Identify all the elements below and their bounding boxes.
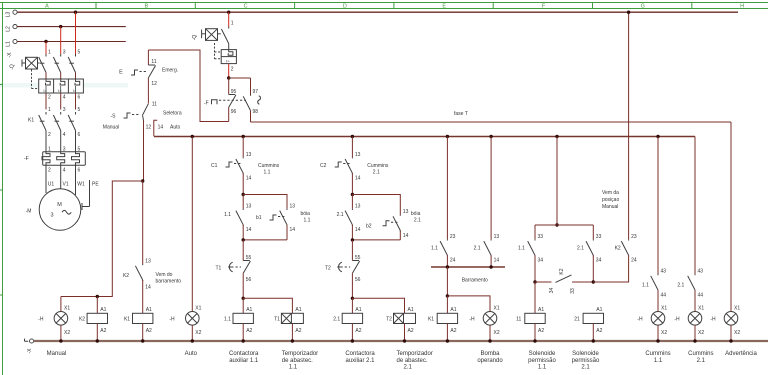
contact 2.1 33-34 — [577, 225, 602, 282]
coil solenoide 1.1 — [516, 282, 545, 341]
svg-text:bóia: bóia — [301, 211, 311, 217]
svg-text:T2: T2 — [325, 265, 331, 271]
svg-text:-F: -F — [204, 100, 209, 106]
label Temporizador de abastec 1.1 — [282, 351, 318, 371]
svg-text:Contactora: Contactora — [229, 351, 259, 357]
svg-text:2.1: 2.1 — [337, 212, 344, 218]
svg-text:21: 21 — [574, 316, 580, 322]
svg-text:14: 14 — [355, 176, 361, 182]
svg-text:43: 43 — [661, 269, 667, 275]
svg-text:-H: -H — [710, 316, 716, 322]
junction rejoin 1.1 — [242, 238, 245, 241]
contact 2.1 13-14 bomba — [474, 137, 500, 268]
label Cummins 1.1 bottom — [645, 351, 670, 364]
lamp -H Manual — [38, 297, 70, 342]
svg-text:Cummins: Cummins — [367, 163, 389, 169]
lamp -H cummins 1.1 — [637, 305, 667, 341]
wire fase T rail — [251, 121, 732, 123]
svg-text:33: 33 — [538, 234, 544, 240]
svg-text:A2: A2 — [295, 328, 301, 334]
svg-text:Emerg.: Emerg. — [162, 67, 178, 73]
svg-text:24: 24 — [450, 258, 456, 264]
coil 1.1 — [224, 298, 253, 341]
contact 1.1 43-44 — [642, 137, 666, 312]
breaker -Q control operator box — [192, 29, 221, 41]
svg-text:56: 56 — [355, 277, 361, 283]
wire top rail to K2 contact — [628, 12, 630, 239]
svg-text:X2: X2 — [698, 330, 704, 336]
contact T1 55-56 — [216, 240, 252, 298]
wire to bomba lamp — [447, 296, 490, 312]
svg-text:L3: L3 — [6, 12, 12, 18]
svg-text:23: 23 — [631, 234, 637, 240]
svg-text:Vem da: Vem da — [602, 190, 619, 196]
node Barramento bus — [431, 266, 505, 268]
svg-text:posiçao: posiçao — [602, 197, 619, 203]
svg-text:K2: K2 — [79, 316, 85, 322]
svg-text:1.1: 1.1 — [642, 283, 649, 289]
svg-text:Manual: Manual — [103, 124, 119, 130]
svg-text:13: 13 — [246, 152, 252, 158]
svg-text:2.1: 2.1 — [474, 246, 481, 252]
svg-text:A2: A2 — [246, 328, 252, 334]
svg-text:A2: A2 — [146, 328, 152, 334]
svg-text:bóia: bóia — [411, 211, 421, 217]
svg-text:b1: b1 — [256, 215, 262, 221]
svg-text:D: D — [343, 3, 347, 9]
svg-text:2.1: 2.1 — [373, 170, 380, 176]
svg-text:3: 3 — [63, 107, 66, 113]
svg-text:A2: A2 — [355, 328, 361, 334]
contact b2 bóia — [366, 209, 409, 240]
contact K2 23-24 — [593, 234, 637, 282]
svg-text:14: 14 — [403, 233, 409, 239]
overload contact -F 97-98 — [229, 78, 261, 122]
label Solenoide permissão 2.1 — [572, 351, 600, 371]
svg-text:-M: -M — [26, 209, 32, 215]
svg-text:1: 1 — [48, 50, 51, 56]
svg-text:2.1: 2.1 — [697, 358, 706, 364]
wire bottom rail — [34, 340, 768, 342]
svg-text:G: G — [641, 3, 645, 9]
svg-text:A1: A1 — [450, 307, 456, 313]
svg-text:13: 13 — [494, 234, 500, 240]
terminal -X bottom — [25, 339, 34, 354]
coil 2.1 — [333, 298, 362, 341]
svg-text:14: 14 — [494, 258, 500, 264]
wire to self-hold split 2.1 — [351, 173, 353, 194]
label Contactora auxiliar 1.1 — [229, 351, 259, 364]
junction bomba contact 1.1 — [446, 135, 449, 138]
svg-text:T1: T1 — [274, 316, 280, 322]
junction K2 coil tap — [96, 295, 99, 298]
svg-text:Solenoide: Solenoide — [529, 351, 556, 357]
wire manual branch to lamp column — [61, 181, 143, 297]
svg-text:X1: X1 — [195, 305, 201, 311]
wire barramento down — [446, 267, 448, 296]
svg-text:Temporizador: Temporizador — [397, 351, 433, 357]
svg-text:14: 14 — [290, 227, 296, 233]
junction solenoid split — [555, 223, 558, 226]
svg-text:A1: A1 — [246, 307, 252, 313]
svg-text:1.1: 1.1 — [264, 170, 271, 176]
overload relay -F — [24, 152, 85, 166]
svg-text:H: H — [740, 3, 744, 9]
contact 1.1 13-14 — [224, 195, 251, 240]
junction bomba lamp split — [446, 294, 449, 297]
svg-text:-S: -S — [111, 113, 117, 119]
svg-text:Cummins: Cummins — [645, 351, 670, 357]
junction top rail K2 — [627, 11, 630, 14]
svg-text:33: 33 — [596, 234, 602, 240]
svg-text:L1: L1 — [6, 41, 12, 47]
svg-text:b2: b2 — [366, 224, 372, 230]
junction split 1.1 — [242, 193, 245, 196]
svg-text:X2: X2 — [195, 330, 201, 336]
svg-text:Vem do: Vem do — [156, 272, 173, 278]
wire solenoid split — [535, 224, 593, 226]
svg-text:98: 98 — [253, 109, 259, 115]
svg-text:auxiliar 2.1: auxiliar 2.1 — [345, 358, 375, 364]
svg-text:2: 2 — [48, 168, 51, 174]
junction L3 — [74, 11, 77, 14]
wire to self-hold split 1.1 — [242, 173, 244, 194]
node L2 rail — [6, 25, 126, 32]
wire selector manual branch — [143, 121, 145, 182]
svg-text:2: 2 — [48, 132, 51, 138]
svg-text:97: 97 — [253, 89, 259, 95]
svg-text:U1: U1 — [48, 182, 55, 188]
junction -Q control on L3 — [227, 11, 230, 14]
svg-text:X2: X2 — [734, 330, 740, 336]
junction barramento left — [446, 265, 449, 268]
svg-text:auxiliar 1.1: auxiliar 1.1 — [229, 358, 259, 364]
breaker -Q trip block — [39, 79, 84, 93]
contact C2 13-14 — [320, 137, 361, 182]
selector switch -S — [103, 101, 182, 136]
svg-text:2.1: 2.1 — [414, 218, 421, 224]
svg-text:A1: A1 — [295, 307, 301, 313]
lamp -H advertencia — [710, 305, 740, 341]
label Vem da posição Manual — [602, 190, 619, 210]
svg-text:2.1: 2.1 — [404, 365, 413, 371]
wire PE — [82, 180, 90, 210]
node L1 rail — [6, 39, 126, 46]
junction manual branch — [141, 179, 144, 182]
timer T2 — [386, 307, 415, 341]
svg-text:Auto: Auto — [185, 351, 198, 357]
pin labels overload bottom 2 4 6 — [48, 168, 81, 174]
junction coil split 2.1 — [351, 297, 354, 300]
svg-text:X1: X1 — [64, 305, 70, 311]
svg-text:-H: -H — [674, 316, 680, 322]
svg-text:Bomba: Bomba — [480, 351, 500, 357]
svg-text:K2: K2 — [559, 268, 565, 274]
svg-text:3: 3 — [50, 213, 53, 219]
svg-text:E: E — [442, 3, 446, 9]
svg-text:14: 14 — [145, 285, 151, 291]
svg-text:5: 5 — [78, 107, 81, 113]
wire -Q control to -F — [228, 64, 230, 78]
svg-text:X2: X2 — [494, 330, 500, 336]
junction barramento right — [489, 265, 492, 268]
svg-text:A1: A1 — [596, 307, 602, 313]
svg-text:PE: PE — [92, 182, 99, 188]
svg-text:6: 6 — [78, 132, 81, 138]
contact K2 13-14 — [123, 181, 151, 313]
wire fase T to advertencia — [730, 122, 732, 312]
svg-text:A1: A1 — [146, 307, 152, 313]
svg-text:1.1: 1.1 — [224, 316, 231, 322]
svg-text:2.1: 2.1 — [333, 316, 340, 322]
svg-text:12: 12 — [146, 125, 152, 131]
wire breaker to K1 — [46, 93, 76, 110]
svg-text:Solenoide: Solenoide — [572, 351, 599, 357]
svg-text:A1: A1 — [100, 307, 106, 313]
pin labels overload top 1 3 5 — [48, 146, 81, 152]
contactor K1 power poles — [28, 112, 76, 131]
svg-text:-H: -H — [637, 316, 643, 322]
svg-text:T1: T1 — [216, 265, 222, 271]
junction L1 — [44, 40, 47, 43]
svg-text:11: 11 — [516, 316, 521, 322]
svg-text:-F: -F — [24, 156, 29, 162]
svg-text:6: 6 — [78, 95, 81, 101]
svg-text:-H: -H — [38, 316, 44, 322]
svg-text:-H: -H — [469, 316, 475, 322]
svg-text:X1: X1 — [494, 305, 500, 311]
junctions bottom rail — [59, 339, 733, 342]
coil K1 manual — [124, 307, 153, 341]
lamp -H cummins 2.1 — [674, 305, 704, 341]
svg-text:V1: V1 — [63, 182, 69, 188]
svg-text:4: 4 — [63, 95, 66, 101]
breaker -Q control pole — [221, 27, 228, 50]
contact 2.1 13-14 — [337, 195, 361, 240]
svg-text:14: 14 — [246, 176, 252, 182]
label bóia 1.1 — [301, 211, 311, 224]
wire phase drop 1 — [45, 42, 47, 55]
svg-text:A2: A2 — [596, 328, 602, 334]
svg-text:Barramento: Barramento — [462, 278, 488, 284]
svg-text:-H: -H — [169, 316, 175, 322]
svg-text:de abastec.: de abastec. — [282, 358, 313, 364]
svg-text:Manual: Manual — [47, 351, 67, 357]
lamp -H bomba — [469, 305, 499, 341]
svg-text:23: 23 — [450, 234, 456, 240]
svg-text:W1: W1 — [77, 182, 85, 188]
svg-text:L2: L2 — [6, 26, 12, 32]
svg-text:A2: A2 — [100, 328, 106, 334]
wire -F96 to E11 — [148, 50, 228, 122]
svg-text:A1: A1 — [538, 307, 544, 313]
contact 1.1 33-34 — [518, 225, 543, 282]
svg-text:12: 12 — [151, 81, 157, 87]
svg-text:Seletora: Seletora — [163, 110, 182, 116]
svg-text:1: 1 — [48, 107, 51, 113]
svg-text:C2: C2 — [320, 163, 327, 169]
svg-text:1.1: 1.1 — [224, 212, 231, 218]
junction L2 — [59, 25, 62, 28]
svg-text:-Q: -Q — [192, 35, 198, 41]
svg-text:Cummins: Cummins — [258, 163, 280, 169]
wire auto rail — [154, 136, 695, 138]
wire phase drop 5 — [75, 12, 77, 54]
svg-text:14: 14 — [158, 125, 164, 131]
label Vem do barramento — [156, 272, 182, 285]
svg-text:2.1: 2.1 — [577, 246, 584, 252]
svg-text:K2: K2 — [615, 246, 621, 252]
contact 1.1 23-24 — [431, 137, 456, 268]
junction coil split 1.1 — [242, 297, 245, 300]
label Cummins 2.1 bottom — [688, 351, 713, 364]
svg-text:56: 56 — [246, 277, 252, 283]
coil K1 bomba — [428, 296, 458, 341]
svg-text:3: 3 — [63, 50, 66, 56]
svg-text:X1: X1 — [698, 305, 704, 311]
svg-text:Cummins: Cummins — [688, 351, 713, 357]
wire L3 to -Q control — [228, 12, 230, 26]
svg-text:-X: -X — [27, 348, 33, 354]
svg-text:1.1: 1.1 — [654, 358, 663, 364]
svg-text:permissão: permissão — [528, 358, 556, 364]
svg-text:-Q: -Q — [10, 64, 16, 70]
svg-text:K1: K1 — [124, 316, 130, 322]
junction solenoid feed — [555, 135, 558, 138]
svg-text:A: A — [45, 3, 49, 9]
junction C2 rung — [351, 135, 354, 138]
wire K1 to overload — [46, 131, 76, 152]
svg-text:14: 14 — [246, 227, 252, 233]
svg-text:K1: K1 — [428, 316, 434, 322]
svg-text:34: 34 — [538, 258, 544, 264]
label Contactora auxiliar 2.1 — [345, 351, 375, 364]
svg-text:2.1: 2.1 — [677, 283, 684, 289]
label Bomba operando — [477, 351, 503, 364]
svg-text:43: 43 — [698, 269, 704, 275]
wire split branch bóia 1.1 — [243, 195, 287, 209]
svg-text:A1: A1 — [408, 307, 414, 313]
svg-text:2: 2 — [48, 95, 51, 101]
svg-text:11: 11 — [152, 101, 157, 107]
svg-text:Advertência: Advertência — [725, 351, 757, 357]
junction -F 95 97 — [227, 76, 230, 79]
svg-text:A2: A2 — [538, 328, 544, 334]
motor -M — [26, 189, 81, 231]
label Cummins 2.1 — [367, 163, 389, 176]
svg-text:1.1: 1.1 — [518, 246, 525, 252]
svg-text:-X: -X — [7, 52, 13, 58]
svg-text:13: 13 — [355, 204, 361, 210]
lamp -H Auto — [169, 137, 201, 342]
wire to timer T1 — [243, 298, 292, 313]
label Temporizador de abastec 2.1 — [397, 351, 433, 371]
svg-text:X1: X1 — [661, 305, 667, 311]
svg-text:X2: X2 — [64, 330, 70, 336]
junction K2 horizontal right — [592, 280, 595, 283]
coil K2 — [79, 297, 108, 342]
svg-text:13: 13 — [145, 259, 151, 265]
svg-text:13: 13 — [403, 209, 409, 215]
junction bomba contact 2.1 — [489, 135, 492, 138]
svg-text:A2: A2 — [408, 328, 414, 334]
contact C1 13-14 — [211, 137, 251, 182]
contact T2 55-56 — [325, 240, 361, 298]
svg-text:13: 13 — [290, 204, 296, 210]
svg-text:M: M — [57, 202, 62, 208]
wire split branch bóia 2.1 — [352, 195, 400, 215]
svg-text:11: 11 — [151, 59, 156, 65]
svg-text:5: 5 — [78, 50, 81, 56]
wire auto rail corner to cummins 2.1 — [694, 137, 696, 275]
svg-text:34: 34 — [596, 258, 602, 264]
svg-text:B: B — [144, 3, 148, 9]
label bóia 2.1 — [411, 211, 421, 224]
svg-text:14: 14 — [355, 227, 361, 233]
junction split 2.1 — [351, 193, 354, 196]
junction auto lamp — [191, 135, 194, 138]
svg-text:Auto: Auto — [170, 125, 181, 131]
breaker -Q operator box — [10, 57, 41, 88]
svg-text:K1: K1 — [28, 118, 34, 124]
svg-text:13: 13 — [246, 204, 252, 210]
svg-text:4: 4 — [63, 168, 66, 174]
emergency button E — [119, 50, 178, 104]
timer T1 — [274, 307, 303, 341]
junction K2 horizontal left — [533, 280, 536, 283]
svg-text:K2: K2 — [123, 273, 129, 279]
svg-text:C: C — [244, 3, 248, 9]
svg-text:24: 24 — [631, 258, 637, 264]
svg-text:de abastec.: de abastec. — [397, 358, 428, 364]
svg-text:barramento: barramento — [156, 279, 182, 285]
svg-text:Manual: Manual — [602, 204, 618, 210]
svg-text:1: 1 — [231, 20, 234, 26]
svg-text:33: 33 — [570, 288, 576, 294]
wire solenoid feed down — [556, 137, 558, 226]
wire overload to motor — [46, 165, 76, 195]
node L3 rail — [6, 10, 738, 17]
svg-text:C1: C1 — [211, 163, 218, 169]
breaker -Q power poles — [39, 54, 76, 79]
svg-text:2.1: 2.1 — [581, 365, 590, 371]
wire phase drop 3 — [60, 27, 62, 54]
svg-text:13: 13 — [355, 152, 361, 158]
svg-text:44: 44 — [698, 292, 704, 298]
svg-text:1.1: 1.1 — [289, 365, 298, 371]
svg-text:fase T: fase T — [454, 111, 468, 117]
wire rejoin 2.1 — [352, 239, 400, 241]
svg-text:96: 96 — [231, 109, 237, 115]
breaker -Q control trip block — [215, 43, 237, 64]
wire rejoin 1.1 — [243, 239, 287, 241]
junction C1 rung — [242, 135, 245, 138]
svg-text:Temporizador: Temporizador — [282, 351, 318, 357]
svg-text:T2: T2 — [386, 316, 392, 322]
coil solenoide 2.1 — [574, 307, 603, 341]
svg-text:34: 34 — [549, 288, 555, 294]
label Solenoide permissão 1.1 — [528, 351, 556, 371]
contact K2 33-34 horizontal — [535, 268, 593, 294]
svg-text:operando: operando — [477, 358, 503, 364]
junction rejoin 2.1 — [351, 238, 354, 241]
svg-text:A2: A2 — [450, 328, 456, 334]
svg-text:E: E — [119, 70, 123, 76]
svg-text:X2: X2 — [661, 330, 667, 336]
wire to timer T2 — [352, 298, 404, 313]
svg-text:A1: A1 — [355, 307, 361, 313]
svg-text:2: 2 — [231, 66, 234, 72]
